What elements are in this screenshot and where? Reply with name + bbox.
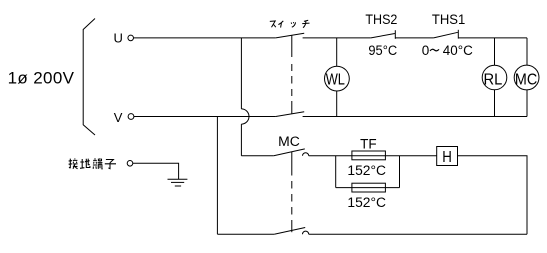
wire V terminal to switch pole2 <box>134 116 276 118</box>
TF parallel branch bottom wire <box>336 187 400 189</box>
relay RL <box>482 65 507 90</box>
terminal U <box>114 31 134 46</box>
terminal V <box>114 110 134 125</box>
lamp WL <box>325 66 350 91</box>
label スイッチ <box>270 20 310 27</box>
kanji 端 <box>93 158 103 169</box>
ground terminal label 接地端子 <box>69 158 116 169</box>
MC contact pole 2 <box>274 228 309 235</box>
bottom rail wire right <box>309 233 527 235</box>
svg-text:152°C: 152°C <box>347 163 386 178</box>
svg-text:TF: TF <box>360 137 377 152</box>
MC contact pole 1 <box>274 149 309 156</box>
wire switch pole2 to V rail right <box>303 116 527 118</box>
wire U terminal to switch <box>134 37 276 39</box>
wire THS1 to top-right corner <box>458 37 527 39</box>
kanji 接 <box>69 158 78 168</box>
relay RL branch wire lower <box>494 90 496 117</box>
svg-text:0: 0 <box>422 43 430 58</box>
svg-text:V: V <box>114 110 123 125</box>
ground terminal circle <box>127 161 133 167</box>
svg-text:THS2: THS2 <box>365 12 397 27</box>
lamp WL branch wire lower <box>336 91 338 117</box>
wire THS2 to THS1 <box>395 37 433 39</box>
brace for supply <box>83 19 95 136</box>
switch gang dashed link (upper) <box>291 35 293 114</box>
lamp WL branch wire upper <box>336 38 338 66</box>
switch pole 2 blade <box>276 112 305 117</box>
svg-text:MC: MC <box>278 134 300 149</box>
svg-text:U: U <box>114 31 123 46</box>
node U drop wire with hop over V <box>241 38 249 156</box>
svg-text:95°C: 95°C <box>368 43 397 58</box>
contactor coil MC <box>514 65 539 90</box>
contactor coil MC branch wire upper <box>526 38 528 65</box>
svg-text:WL: WL <box>326 71 346 88</box>
TF parallel branch right wire <box>399 156 401 188</box>
svg-text:1ø 200V: 1ø 200V <box>8 69 75 88</box>
MC gang dashed link (lower) <box>291 152 293 233</box>
TF parallel branch left wire <box>335 156 337 188</box>
heater H box <box>437 147 458 167</box>
bottom rail wire left <box>217 233 274 235</box>
label 0~40°C <box>422 43 473 58</box>
thermostat THS1 contact <box>434 30 459 39</box>
thermostat THS2 contact <box>371 30 395 39</box>
svg-text:H: H <box>442 149 452 166</box>
svg-text:RL: RL <box>484 72 503 89</box>
wire heater feed to MC contact <box>241 155 273 157</box>
svg-text:152°C: 152°C <box>347 195 386 210</box>
thermal fuse TF2 <box>352 183 386 192</box>
svg-text:40°C: 40°C <box>443 43 473 58</box>
wire H to right edge <box>458 156 528 234</box>
kanji 地 <box>80 159 90 169</box>
wire switch pole1 to THS2 <box>303 37 371 39</box>
svg-text:THS1: THS1 <box>432 12 465 27</box>
kanji 子 <box>105 160 116 169</box>
wire MC contact to TF <box>309 155 437 157</box>
switch pole 1 blade <box>276 33 305 38</box>
wire V to bottom rail drop <box>216 117 218 235</box>
earth ground symbol <box>168 179 188 186</box>
svg-text:MC: MC <box>515 72 537 89</box>
contactor coil MC branch wire lower <box>526 90 528 117</box>
thermal fuse TF1 <box>352 151 386 160</box>
relay RL branch wire upper <box>494 38 496 65</box>
wire ground terminal to earth <box>133 163 179 179</box>
